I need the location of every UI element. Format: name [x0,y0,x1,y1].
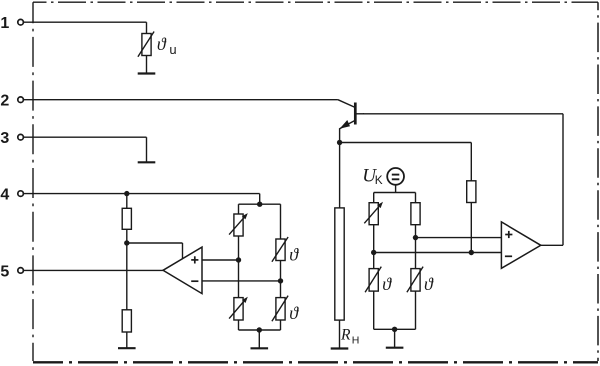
wire node B to inverting input [374,252,502,254]
wire terminal 5 to U1 output [23,269,163,271]
svg-text:H: H [352,335,360,347]
svg-text:ϑ: ϑ [424,274,434,294]
resistor R5 [122,310,131,332]
node bridge bottom centre [257,327,262,332]
wire emitter down [339,128,341,142]
wire node A to non-inverting input [416,237,502,239]
node bridge top [257,202,262,207]
node A [413,235,418,240]
terminal 4 [0,187,23,204]
node D [236,257,241,262]
wire terminal 2 to transistor base [23,100,355,108]
label theta 4 [289,303,299,323]
svg-text:ϑ: ϑ [289,303,299,323]
svg-text:u: u [169,42,176,57]
svg-text:4: 4 [0,187,9,204]
svg-text:ϑ: ϑ [289,245,299,265]
wire thermistor to bottom rail [280,320,282,330]
wire U1 inverting input [202,280,281,282]
ground terminal 3 [138,137,156,162]
terminal 2 [0,93,23,110]
ground below R5 [118,332,136,348]
terminal 5 [0,263,23,280]
adjustable resistor R7 [229,297,248,320]
resistor R1 [467,181,476,203]
label theta-u [157,34,177,57]
wire collector to right rail [363,113,563,115]
wire emitter junction down to R_H [339,143,341,208]
wire node B down [373,253,375,269]
wire node C to op-amp supply [127,243,183,259]
node divider top [124,191,129,196]
node emitter junction [337,140,342,145]
resistor R4 [122,208,131,229]
resistor R3 [411,203,420,225]
svg-text:3: 3 [0,130,9,147]
wire emitter junction to resistor R1 [340,143,472,181]
wire R1 down to inverting line [470,203,472,253]
ground below bridge [251,330,269,348]
label theta 1 [382,274,392,294]
thermistor R-theta-1 [365,267,381,293]
wire terminal 4 rail [23,194,259,205]
wire R2 to node B [373,225,375,253]
wire thermistor to bottom rail [415,291,417,329]
wire to thermistor R-theta-3 [280,204,282,239]
wire U1 non-inverting input [202,259,239,261]
op-amp U2 [501,222,540,268]
svg-text:ϑ: ϑ [382,274,392,294]
wire divider top [126,194,128,209]
node R1 to inverting input [469,250,474,255]
adjustable resistor R2 [364,202,383,225]
thermistor R-theta-3 [272,237,288,262]
wire bridge top rail [239,203,281,205]
thermistor R-theta-2 [407,267,423,293]
wire terminal 1 to thermistor [23,22,146,33]
label theta 2 [424,274,434,294]
ground below thermistor [138,56,156,74]
label U_K [362,166,382,188]
wire node A down [415,238,417,269]
wire rail to resistor R3 [415,193,417,203]
node bridge bottom [392,327,397,332]
wire to adjustable resistor R6 [238,204,240,214]
wire R6 to node D [238,236,240,260]
svg-text:5: 5 [0,263,9,280]
resistor R_H [335,208,344,320]
wire R7 to bottom rail [238,320,240,330]
wire U_K to bridge rail [374,185,416,193]
wire bridge bottom rail [374,328,416,330]
node B [371,250,376,255]
wire thermistor to bottom rail [373,291,375,329]
label theta 3 [289,245,299,265]
svg-text:K: K [375,173,383,187]
wire node D down [238,260,240,298]
wire bridge bottom rail [239,329,281,331]
wire node C down [126,243,128,310]
wire R4 to node C [126,229,128,243]
label R_H [340,327,359,347]
svg-text:R: R [340,327,351,344]
wire node E down [280,281,282,298]
wire R3 to node A [415,225,417,238]
node E [278,278,283,283]
op-amp U1 [163,247,202,294]
wire U2 output feedback [541,114,563,246]
terminal 1 [0,15,23,32]
wire rail to adjustable resistor R2 [373,193,375,203]
thermistor R-theta-u [138,32,154,57]
svg-text:ϑ: ϑ [157,34,167,54]
adjustable resistor R6 [229,213,248,236]
wire thermistor to node E [280,261,282,281]
ground below bridge [386,329,404,347]
terminal 3 [0,130,23,147]
svg-text:1: 1 [0,15,9,32]
ground below R_H [331,320,349,348]
thermistor R-theta-4 [272,296,288,322]
DC source U_K [387,168,404,185]
wire terminal 3 [23,136,146,138]
transistor Q1 [340,103,364,129]
node C [124,240,129,245]
svg-text:2: 2 [0,93,9,110]
